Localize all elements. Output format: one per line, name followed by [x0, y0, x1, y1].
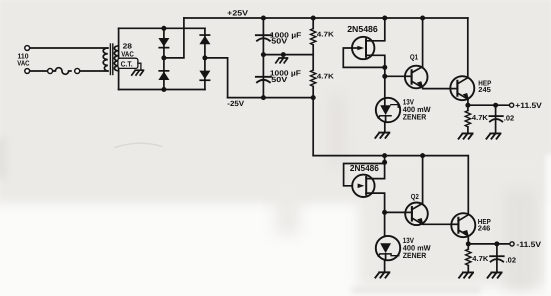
svg-text:50V: 50V	[271, 75, 287, 84]
svg-text:4.7K: 4.7K	[317, 31, 334, 38]
svg-text:4.7K: 4.7K	[472, 113, 489, 122]
svg-text:C.T.: C.T.	[121, 60, 133, 69]
svg-text:ZENER: ZENER	[403, 113, 427, 122]
svg-text:VAC: VAC	[121, 50, 134, 59]
svg-text:.02: .02	[504, 114, 514, 123]
svg-text:-11.5V: -11.5V	[517, 240, 542, 249]
svg-text:+11.5V: +11.5V	[515, 101, 542, 110]
svg-text:Q1: Q1	[410, 53, 418, 62]
svg-text:.02: .02	[506, 255, 516, 264]
svg-text:VAC: VAC	[17, 58, 29, 67]
svg-text:ZENER: ZENER	[403, 251, 427, 260]
svg-text:4.7K: 4.7K	[317, 73, 334, 80]
svg-text:50V: 50V	[271, 37, 287, 46]
svg-text:-25V: -25V	[227, 99, 245, 108]
svg-text:4.7K: 4.7K	[472, 254, 489, 263]
svg-text:Q2: Q2	[411, 192, 419, 201]
svg-text:246: 246	[478, 224, 491, 233]
svg-text:2N5486: 2N5486	[347, 24, 378, 34]
svg-text:245: 245	[478, 85, 491, 94]
svg-text:2N5486: 2N5486	[350, 163, 379, 173]
svg-text:+25V: +25V	[227, 9, 249, 18]
